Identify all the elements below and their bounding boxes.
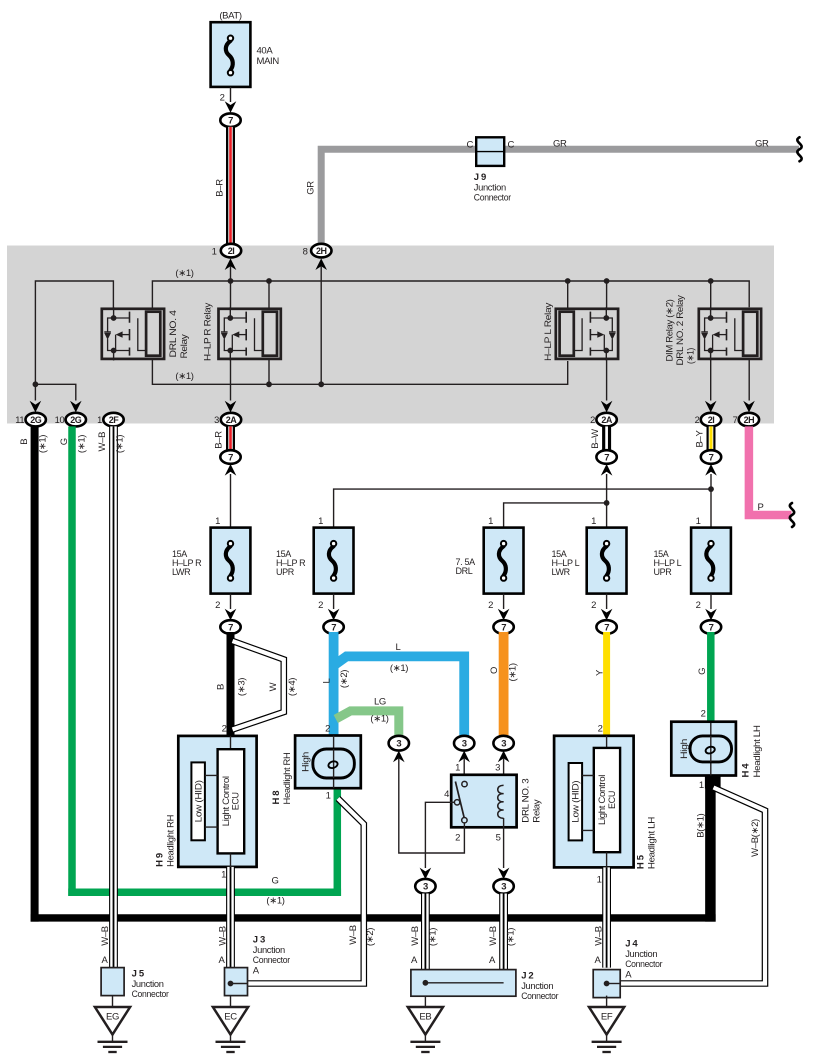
label DRL NO. 3 relay [521,779,543,823]
svg-text:(∗4): (∗4) [287,678,298,696]
junction block connector 3 2A [214,413,241,427]
svg-text:DIM Relay (∗2): DIM Relay (∗2) [664,299,675,361]
svg-text:A: A [253,966,260,977]
svg-text:DRL: DRL [456,566,473,576]
svg-text:2H: 2H [316,246,327,256]
fuse 15A H-LP L LWR [552,516,627,620]
svg-text:Headlight RH: Headlight RH [282,752,293,804]
svg-text:H 9: H 9 [155,853,166,867]
GR wire labels [553,139,769,150]
svg-text:1: 1 [97,415,102,425]
svg-text:8: 8 [303,246,308,257]
svg-text:(∗1): (∗1) [76,435,87,453]
svg-text:A: A [595,955,602,966]
svg-text:1: 1 [597,875,602,886]
svg-text:J 2: J 2 [521,971,533,982]
svg-text:Connector: Connector [253,955,290,966]
label H5 headlight LH [636,817,658,869]
svg-text:Connector: Connector [474,193,511,204]
connector oval 7 below fuse 15A H-LP L LWR [596,620,616,634]
svg-text:3: 3 [495,763,500,774]
svg-text:Connector: Connector [132,989,169,1000]
svg-text:2: 2 [701,709,706,720]
svg-text:Headlight LH: Headlight LH [752,725,763,777]
svg-text:W–B: W–B [217,926,228,946]
relay H-LP R [202,302,280,361]
(*1) upper bus wire in junction block [152,268,749,308]
connector oval 7 below fuse 15A H-LP R LWR [220,620,240,634]
svg-text:H 5: H 5 [636,854,647,869]
svg-text:Headlight LH: Headlight LH [647,817,658,869]
svg-text:UPR: UPR [654,567,673,577]
continuation squiggle on P wire [790,503,794,527]
svg-text:5: 5 [496,833,501,844]
feed wire to fuse DRL from B-W [504,500,610,544]
svg-text:(∗1): (∗1) [685,348,696,364]
svg-text:4: 4 [444,789,449,800]
wire W-B(*2) from H4 to J4 [620,788,765,984]
ground EF [589,996,624,1052]
label A at J5 [102,955,109,966]
svg-text:Low (HID): Low (HID) [571,781,582,823]
connector oval 3 (relay coil ground) [493,879,513,894]
wire B-W from 2A-2 to fuse H-LP L LWR [590,426,607,450]
svg-text:A: A [625,970,632,981]
svg-text:B: B [215,684,226,690]
connector oval 7 above fuse 5 [701,450,721,544]
svg-text:7: 7 [604,452,609,463]
svg-text:(∗1): (∗1) [505,928,516,946]
svg-text:W–B(∗2): W–B(∗2) [750,819,761,857]
wire H-LP L relay stubs [568,281,613,412]
svg-text:B–R: B–R [215,179,226,197]
svg-text:DRL NO. 4: DRL NO. 4 [168,310,179,357]
relay DRL NO. 3 [444,758,517,844]
wire W (*4) alternative bypass [233,641,298,730]
arrow into connector 7 [225,101,237,113]
svg-text:2: 2 [455,833,460,844]
svg-text:10: 10 [55,415,65,425]
svg-text:(∗1): (∗1) [115,435,126,453]
svg-text:2: 2 [696,600,701,611]
fuse 15A H-LP R UPR [276,516,354,620]
svg-text:P: P [758,502,764,513]
fuse 15A H-LP R LWR [172,516,250,620]
junction connector J4 [593,939,662,998]
wire B-R from 2A-3 to fuse H-LP R LWR [214,426,231,450]
svg-text:2H: 2H [744,415,755,425]
svg-text:1: 1 [699,780,704,791]
junction connector J5 [101,968,169,1000]
svg-text:GR: GR [553,139,567,150]
wire W-B from H9 to J3 [217,867,230,968]
headlight LH assembly H5 [554,724,634,886]
relay DIM (*2) / DRL NO. 2 (*1) [664,295,761,366]
wire GR from junction block 2H to J9 and off-page [305,149,799,244]
svg-text:2F: 2F [109,415,120,425]
wire from DRL relay feed to connectors 2G [30,281,114,412]
svg-text:H–LP R Relay: H–LP R Relay [202,302,213,361]
wire P from 2H-7 off-page [749,426,792,515]
junction connector J9 [466,137,514,203]
svg-text:G: G [59,438,70,445]
wire L from fuse 2 to headlight RH high beam [321,632,350,735]
svg-text:11: 11 [15,415,24,425]
svg-text:O: O [489,667,500,674]
fusible link 40A MAIN (BAT) [211,11,280,87]
junction block connector 10 2G [55,413,86,427]
svg-text:2G: 2G [70,415,82,425]
svg-text:LWR: LWR [552,567,571,577]
connector oval 7 (battery feed) [220,113,240,127]
wire B-Y from 2I-2 to fuse H-LP L UPR [694,426,711,450]
svg-text:High: High [300,752,311,772]
svg-text:LWR: LWR [172,567,191,577]
svg-text:A: A [219,955,226,966]
svg-text:2: 2 [591,600,596,611]
wire 2I to H-LP R relay and connector 2A [225,266,237,412]
svg-text:3: 3 [423,882,428,893]
svg-text:7: 7 [331,622,336,633]
H-LP R relay coil stubs [268,281,270,384]
connector oval 7 above fuse 1 [220,450,240,544]
svg-text:(∗1): (∗1) [427,928,438,946]
svg-text:B–W: B–W [590,429,601,449]
ground EC [213,996,248,1052]
svg-text:A: A [102,955,109,966]
svg-text:J 9: J 9 [474,172,486,183]
pin 2 of 40A MAIN [220,87,231,104]
svg-text:J 4: J 4 [625,939,638,950]
svg-text:3: 3 [214,415,219,425]
label H8 headlight RH [271,752,293,804]
svg-text:2: 2 [598,724,603,735]
connector oval 7 below fuse 7.5A DRL [493,620,513,634]
svg-text:J 5: J 5 [132,969,145,980]
svg-text:2: 2 [590,415,595,425]
svg-text:MAIN: MAIN [257,56,280,67]
connector oval 3 (LG branch) [389,736,409,762]
svg-text:B: B [19,439,30,445]
svg-text:W–B: W–B [100,926,111,946]
svg-text:2: 2 [488,600,493,611]
svg-text:2: 2 [318,600,323,611]
svg-text:1: 1 [591,516,596,527]
svg-text:H–LP L Relay: H–LP L Relay [543,302,554,361]
svg-text:ECU: ECU [231,792,242,810]
svg-text:3: 3 [501,882,506,893]
connector oval 7 above fuse 4 [596,450,616,544]
label B(*1) wire under H4 [695,813,706,837]
svg-text:J 3: J 3 [253,935,265,946]
svg-text:3: 3 [396,739,401,750]
svg-text:EC: EC [224,1012,237,1023]
svg-text:7: 7 [709,622,714,633]
svg-text:W–B: W–B [97,432,108,452]
svg-text:ECU: ECU [607,791,618,809]
svg-text:1: 1 [488,516,493,527]
svg-text:2: 2 [325,724,330,735]
relay DRL NO. 4 [102,307,190,360]
svg-text:(∗1): (∗1) [175,268,193,279]
svg-text:7: 7 [604,622,609,633]
svg-text:High: High [679,739,690,759]
svg-text:3: 3 [501,739,506,750]
svg-text:7: 7 [228,116,233,127]
wire O from fuse DRL to DRL NO.3 relay coil [489,632,519,735]
svg-text:Connector: Connector [625,959,662,970]
wire from LG connector 3 to relay terminal 2 [399,758,465,853]
headlight RH high beam H8 [295,724,361,802]
svg-text:3: 3 [462,739,467,750]
relay H-LP L [543,302,618,361]
connector oval 7 below fuse 15A H-LP L UPR [701,620,721,634]
svg-text:7: 7 [733,415,738,425]
wire Y from fuse 4 to headlight LH ECU [594,632,606,736]
headlight RH assembly H9 [178,724,256,881]
svg-text:W–B: W–B [488,926,499,946]
svg-text:GR: GR [305,181,316,195]
wire W-B from relay coil to J2 [488,894,517,970]
label H9 headlight RH [155,814,177,866]
svg-text:1: 1 [215,516,220,527]
wire L (*1) branch to DRL NO.3 relay [332,642,464,736]
wire G from fuse 5 to headlight LH high beam [697,632,711,722]
relay/junction block (gray band) [7,246,774,424]
ground EB [408,996,443,1052]
svg-text:LG: LG [374,697,386,708]
svg-text:B(∗1): B(∗1) [695,813,706,837]
svg-text:W–B: W–B [348,925,359,945]
svg-text:EB: EB [419,1012,431,1023]
svg-text:A: A [411,955,418,966]
wire 2H-8 drop to lower bus [320,266,322,384]
wire LG (*1) branch [336,697,399,737]
svg-text:(BAT): (BAT) [219,11,242,22]
svg-text:40A: 40A [257,46,274,57]
junction block connector 8 2H [303,244,332,270]
svg-text:(∗2): (∗2) [339,670,350,688]
connector oval 3 (L branch) [454,736,474,762]
svg-text:GR: GR [755,139,769,150]
svg-text:2G: 2G [30,415,42,425]
svg-text:1: 1 [212,246,217,257]
svg-text:1: 1 [326,790,331,801]
svg-text:H 8: H 8 [271,791,282,805]
svg-text:7: 7 [709,452,714,463]
junction block connector 11 2G [15,413,46,427]
wire B from 2G-11 to H4 ground side [19,426,721,921]
wire G from 2G-10 to headlight RH high [59,426,341,896]
svg-text:C: C [508,140,515,151]
wire W-B from H5 to J4 [593,867,606,967]
svg-text:Headlight RH: Headlight RH [166,814,177,866]
svg-text:1: 1 [455,763,460,774]
svg-text:2I: 2I [228,246,235,256]
svg-text:(∗1): (∗1) [266,896,284,907]
svg-text:Relay: Relay [532,799,543,823]
wire B (*3) from fuse 1 to headlight RH ECU [215,632,247,736]
svg-text:(∗1): (∗1) [370,714,388,725]
junction block connector 7 2H [733,413,759,427]
svg-text:2A: 2A [601,415,613,425]
svg-text:1: 1 [696,516,701,527]
svg-text:7: 7 [228,452,233,463]
wire DIM relay stubs [705,281,755,412]
junction connector J2 [411,970,558,1002]
svg-text:(∗2): (∗2) [365,928,376,946]
svg-text:7: 7 [228,622,233,633]
feed wire to fuse H-LP R UPR from B-Y [334,486,714,544]
svg-text:2A: 2A [226,415,238,425]
svg-text:EF: EF [601,1012,613,1023]
junction block connector 1 2I [212,244,242,270]
connector oval 3 (O wire) [493,736,513,762]
svg-text:A: A [489,955,496,966]
svg-text:DRL NO. 3: DRL NO. 3 [521,779,532,823]
wire W-B from relay contact to J2 [410,894,439,970]
svg-text:(∗1): (∗1) [390,663,408,674]
junction block connector 2 2I [695,413,722,427]
svg-text:UPR: UPR [276,567,295,577]
fuse 7.5A DRL [456,516,524,620]
continuation squiggle on GR wire [797,137,801,161]
svg-text:W–B: W–B [410,926,421,946]
junction block connector 2 2A [590,413,617,427]
svg-text:7: 7 [501,622,506,633]
svg-text:B–Y: B–Y [694,430,705,448]
svg-text:1: 1 [318,516,323,527]
svg-text:EG: EG [106,1012,119,1023]
(*1) lower bus wire in junction block [152,360,567,387]
svg-text:(∗1): (∗1) [37,435,48,453]
svg-text:2: 2 [695,415,700,425]
wire from relay terminal 5 to ground connector 3 [498,818,510,879]
connector oval 3 (relay contact ground) [415,879,435,894]
connector oval 7 below fuse 15A H-LP R UPR [323,620,343,634]
wire W-B(*2) from H8 to J3 [248,799,376,984]
junction connector J3 [225,935,290,996]
svg-text:(∗3): (∗3) [236,678,247,696]
svg-text:Y: Y [594,669,605,676]
svg-text:G: G [271,876,278,887]
label H4 headlight LH [741,725,764,777]
svg-text:H 4: H 4 [741,763,752,778]
svg-text:1: 1 [221,870,226,881]
svg-text:(∗1): (∗1) [508,663,519,681]
wire from relay terminal 4 to ground connector 3 [420,802,455,879]
svg-text:DRL NO. 2 Relay: DRL NO. 2 Relay [675,295,686,366]
headlight LH high beam H4 [671,709,736,792]
svg-text:2I: 2I [708,415,715,425]
svg-text:L: L [396,642,401,653]
svg-text:W: W [268,682,279,691]
svg-text:B–R: B–R [214,431,225,449]
fuse 15A H-LP L UPR [654,516,731,620]
svg-text:L: L [321,678,332,683]
wire B-R from connector 7 to junction block 2I [215,127,231,244]
junction block connector 1 2F [97,413,124,427]
svg-text:2: 2 [215,600,220,611]
svg-text:W–B: W–B [593,926,604,946]
svg-text:(∗1): (∗1) [175,371,193,382]
svg-text:2: 2 [220,93,225,104]
svg-text:2: 2 [222,724,227,735]
svg-text:G: G [697,668,708,675]
ground EG [95,996,130,1052]
svg-text:C: C [466,140,473,151]
svg-text:Connector: Connector [521,991,558,1002]
label G (*1) wire to headlight RH high [266,876,284,907]
svg-text:Low (HID): Low (HID) [194,780,205,822]
wire W-B from 2F to J5 [97,426,126,967]
svg-text:Relay: Relay [179,334,190,359]
